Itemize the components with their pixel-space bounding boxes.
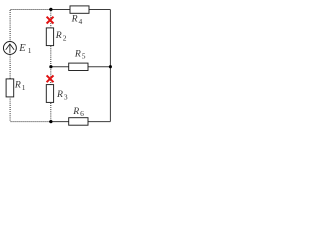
svg-text:R: R <box>71 14 78 25</box>
svg-text:3: 3 <box>64 92 68 101</box>
svg-text:4: 4 <box>79 17 83 26</box>
svg-text:R: R <box>14 80 21 91</box>
svg-text:5: 5 <box>82 52 86 61</box>
svg-text:R: R <box>72 106 79 117</box>
svg-text:1: 1 <box>28 46 32 55</box>
svg-text:1: 1 <box>22 83 26 92</box>
svg-text:6: 6 <box>80 109 84 118</box>
svg-text:R: R <box>55 30 62 41</box>
svg-text:E: E <box>18 43 26 54</box>
svg-text:R: R <box>56 89 63 100</box>
svg-text:2: 2 <box>63 33 67 42</box>
svg-text:R: R <box>74 48 81 59</box>
